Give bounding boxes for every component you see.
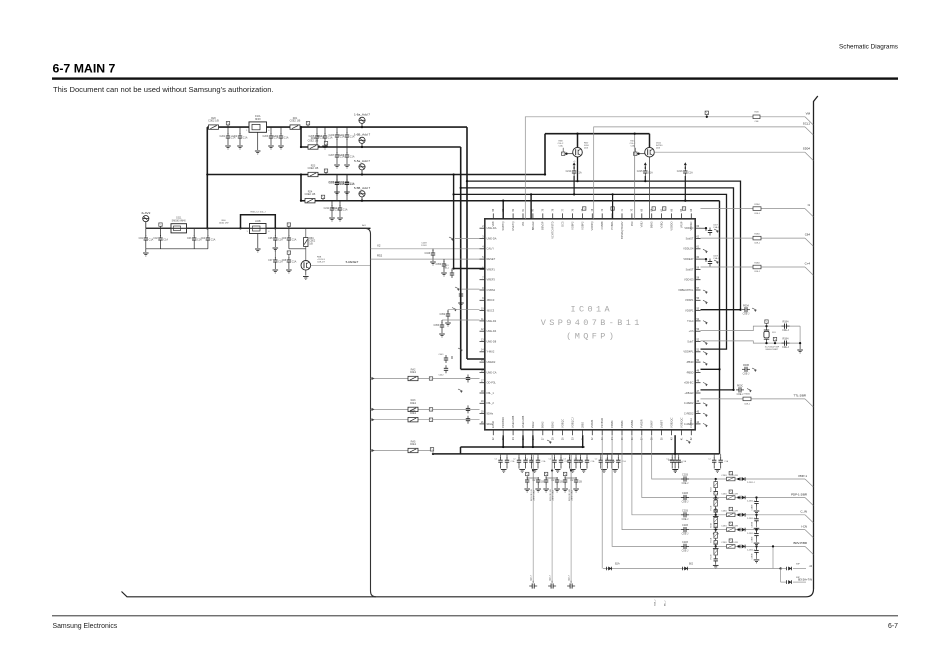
wire SCL: [594, 127, 805, 219]
ground: [346, 160, 348, 164]
svg-text:C206: C206: [316, 135, 322, 138]
svg-text:UNED2: UNED2: [487, 360, 496, 364]
svg-text:VO8PQ: VO8PQ: [590, 222, 594, 231]
svg-text:C64: C64: [805, 233, 811, 237]
svg-text:This Document can not be used: This Document can not be used without Sa…: [53, 85, 274, 94]
svg-text:C0E2 1/B: C0E2 1/B: [208, 120, 219, 123]
svg-text:C221: C221: [338, 134, 344, 137]
svg-text:2V6BR: 2V6BR: [630, 420, 634, 428]
svg-text:C-RED3: C-RED3: [684, 422, 694, 426]
svg-text:OD-P3L: OD-P3L: [487, 381, 497, 385]
wire nested n1: [467, 181, 741, 310]
capacitor CX1: [784, 324, 786, 329]
svg-text:C03: C03: [187, 237, 192, 240]
wire RC row PDP-1: [652, 435, 805, 479]
junction dot: [779, 567, 781, 569]
wire down to transistor: [305, 228, 307, 260]
svg-text:(5V): (5V): [584, 148, 588, 150]
resistor R6C vertical: [304, 238, 308, 247]
svg-text:TTL-2/BR: TTL-2/BR: [793, 393, 806, 397]
svg-text:C0E-J: C0E-J: [737, 393, 744, 396]
svg-text:C0E2 1/B: C0E2 1/B: [305, 193, 316, 196]
svg-text:C0E2 C1A-J: C0E2 C1A-J: [571, 490, 574, 501]
svg-text:V01: V01: [521, 221, 525, 226]
wire IC bottom pin drop: [522, 435, 524, 447]
svg-text:C203: C203: [262, 135, 268, 138]
resistor on exit C64: [753, 236, 761, 240]
svg-text:C0E-J: C0E-J: [682, 518, 689, 521]
svg-text:I-CN: I-CN: [801, 524, 807, 528]
svg-text:BBAAR: BBAAR: [531, 221, 535, 230]
capacitor C210: [346, 175, 348, 181]
svg-text:IC01A: IC01A: [570, 305, 613, 315]
capacitor C051 left pin y287: [461, 288, 480, 290]
resistor on SDA wire: [753, 115, 760, 119]
ground: [441, 330, 443, 333]
net flag 1-6B_Add 7: [361, 143, 363, 147]
svg-text:C21B: C21B: [682, 541, 688, 544]
capacitor C03: [193, 228, 195, 236]
ground: [324, 141, 326, 145]
svg-text:C0E2 1/B: C0E2 1/B: [308, 140, 319, 143]
svg-text:Schematic Diagrams: Schematic Diagrams: [839, 44, 898, 51]
capacitor C02: [160, 228, 162, 236]
svg-text:C049: C049: [424, 252, 430, 255]
diode D22: [682, 567, 684, 571]
svg-text:C1A: C1A: [350, 156, 355, 159]
ground: [336, 160, 338, 164]
svg-text:C2B0E: C2B0E: [752, 521, 754, 528]
capacitor CX2: [784, 341, 786, 346]
svg-text:B2H2: B2H2: [551, 421, 555, 428]
svg-text:2-2B1-J: 2-2B1-J: [747, 501, 755, 503]
svg-text:C0E2 C1A-J: C0E2 C1A-J: [533, 490, 536, 501]
capacitor C00A at pin 309: [744, 307, 746, 312]
cluster below row PDP-1: [715, 478, 717, 480]
capacitor C052 left pin y310: [448, 309, 480, 311]
capacitor C202: [239, 127, 241, 134]
svg-text:F8L_1: F8L_1: [487, 391, 495, 395]
capacitor C009 at right pins: [701, 258, 707, 260]
svg-text:PDP-1-2/BR: PDP-1-2/BR: [791, 492, 807, 496]
svg-text:9DHs: 9DHs: [487, 422, 494, 426]
wire exit I2: [781, 568, 786, 570]
wire long drop x533: [532, 500, 534, 583]
wire bus3 riser x545: [544, 134, 546, 175]
svg-text:C0E-J: C0E-J: [743, 372, 750, 375]
wire left entry A4: [371, 419, 480, 421]
cluster below row PDP-1-2/BR: [714, 492, 717, 495]
transistor Q03: [649, 134, 651, 148]
nc arrows right pins: [703, 290, 708, 292]
svg-text:VSP9407B-B11: VSP9407B-B11: [541, 318, 643, 328]
svg-text:C1A: C1A: [328, 137, 333, 140]
svg-text:UNE-D4: UNE-D4: [487, 329, 497, 333]
svg-text:VO8QCJ: VO8QCJ: [570, 417, 574, 428]
svg-text:C0E-J: C0E-J: [754, 213, 760, 215]
svg-text:SCL1: SCL1: [803, 121, 811, 125]
svg-text:C+4: C+4: [805, 262, 811, 266]
ground below C224: [337, 217, 343, 219]
svg-text:B6H3: B6H3: [650, 221, 654, 228]
svg-text:SD04: SD04: [803, 147, 811, 151]
svg-text:R21B: R21B: [710, 554, 712, 559]
cluster below row I-CN: [714, 524, 717, 527]
svg-text:C204: C204: [272, 135, 278, 138]
wire left entry A2: [371, 378, 480, 380]
wire TTL exit: [701, 398, 806, 400]
wire crystal upper: [701, 326, 801, 331]
ground: [443, 269, 445, 272]
svg-text:C0E-J: C0E-J: [754, 242, 760, 244]
capacitor C07 row2: [274, 249, 276, 258]
ground: [460, 299, 462, 302]
wire IC bottom pin drop x675: [674, 435, 676, 454]
svg-text:CL2R: CL2R: [732, 475, 738, 477]
svg-text:C2B0E: C2B0E: [752, 504, 754, 511]
svg-text:C05: C05: [268, 237, 273, 240]
svg-text:3+3V2: 3+3V2: [141, 211, 150, 215]
capacitor C06: [288, 228, 290, 236]
pad on SDA wire: [705, 111, 708, 114]
svg-text:CL2R: CL2R: [732, 525, 738, 527]
svg-text:P200B2R: P200B2R: [501, 417, 505, 428]
svg-text:VDDLO4: VDDLO4: [683, 247, 694, 251]
svg-text:C0E2 C1A-J: C0E2 C1A-J: [552, 490, 555, 501]
svg-text:2-2B1-J: 2-2B1-J: [747, 533, 755, 535]
sheet border right: [814, 96, 818, 589]
svg-text:C042: C042: [439, 375, 445, 377]
svg-text:C2B1: C2B1: [721, 475, 727, 477]
capacitor pair under bus: [500, 454, 502, 458]
svg-text:+DB-EC: +DB-EC: [684, 381, 694, 385]
wire bus link x301 upper: [300, 127, 302, 147]
svg-text:C1A: C1A: [577, 172, 582, 175]
capacitor pair under bus: [569, 454, 571, 458]
svg-text:R00A: R00A: [743, 304, 749, 307]
svg-text:UNECAB8: UNECAB8: [521, 415, 525, 428]
svg-text:VO82QC: VO82QC: [679, 417, 683, 428]
capacitor pair under bus: [580, 454, 582, 458]
svg-text:1-6B_Add 7: 1-6B_Add 7: [354, 133, 371, 137]
svg-text:VDSP1: VDSP1: [685, 309, 694, 313]
wire RC row BRV-P/BR: [612, 435, 805, 546]
svg-text:2-2B1-J: 2-2B1-J: [747, 518, 755, 520]
svg-text:B3-2A+7/N: B3-2A+7/N: [798, 578, 812, 582]
svg-text:9DHs: 9DHs: [487, 412, 494, 416]
svg-text:BBV3P: BBV3P: [541, 221, 545, 230]
svg-text:C1A: C1A: [163, 239, 168, 242]
svg-text:R1B4: R1B4: [783, 338, 790, 341]
ground: [227, 141, 229, 145]
svg-text:VO82QC: VO82QC: [669, 417, 673, 428]
svg-text:(MQFP): (MQFP): [566, 332, 617, 342]
svg-text:NF08: NF08: [255, 119, 261, 121]
capacitor: [466, 377, 470, 379]
svg-text:B0H2: B0H2: [541, 421, 545, 428]
capacitor series on row PDP-1: [683, 476, 685, 481]
svg-text:VREF3: VREF3: [487, 278, 496, 282]
wire to reset circle: [288, 243, 290, 249]
svg-text:1-6a_Add 7: 1-6a_Add 7: [354, 113, 370, 117]
wire IC top pin riser x612: [612, 194, 614, 218]
svg-text:B2/h: B2/h: [615, 564, 620, 566]
svg-text:C06: C06: [282, 237, 287, 240]
capacitor C04: [207, 228, 209, 236]
resistor R23 on bus3: [308, 172, 318, 176]
svg-text:VDD-E3: VDD-E3: [684, 278, 694, 282]
capacitor C205: [316, 127, 318, 134]
diode on row PDP-1: [739, 477, 741, 481]
wire v3 from bus3: [453, 175, 455, 269]
capacitor C00C at pin 389: [738, 387, 740, 392]
svg-text:UNE-D2: UNE-D2: [487, 319, 497, 323]
svg-text:2-2B1-J: 2-2B1-J: [747, 482, 755, 484]
wire RC row C_IN: [632, 435, 805, 515]
svg-text:1/16V: 1/16V: [421, 245, 427, 247]
svg-text:PV6DR: PV6DR: [640, 419, 644, 428]
diode on row BRV-P/BR: [739, 545, 741, 549]
svg-text:C08: C08: [282, 259, 287, 262]
extra nc arrows right pins: [703, 249, 708, 251]
capacitor C214 with flag: [573, 164, 575, 167]
svg-text:UNEYQ: UNEYQ: [511, 222, 515, 231]
capacitor C223 between bus3 bus4: [346, 175, 348, 181]
pad on bus1: [226, 122, 229, 125]
svg-text:VP2P: VP2P: [679, 221, 683, 228]
wire thick top pin riser x503: [502, 201, 504, 219]
ground: [274, 243, 276, 247]
svg-text:CL2R: CL2R: [732, 511, 738, 513]
svg-text:P4684: P4684: [620, 420, 624, 428]
svg-text:UNECAB8: UNECAB8: [511, 415, 515, 428]
ground: [239, 141, 241, 145]
svg-text:C214: C214: [566, 170, 572, 173]
capacitor pair under bus: [531, 454, 533, 458]
svg-text:C0E2 1/B: C0E2 1/B: [290, 120, 301, 123]
svg-text:R2B4: R2B4: [754, 263, 760, 265]
svg-text:1/B: 1/B: [309, 242, 313, 245]
wire power rail y228: [146, 227, 371, 229]
extra nc arrows bottom pins: [686, 440, 691, 442]
footer rule: [52, 615, 898, 616]
junction dots nested corners: [544, 173, 546, 175]
svg-text:C0E1: C0E1: [410, 371, 417, 374]
svg-text:100Ω 1/W: 100Ω 1/W: [219, 222, 230, 224]
capacitor series on row C_IN: [683, 512, 685, 517]
wire bus below link: [460, 447, 462, 454]
svg-text:M0/467GBRT: M0/467GBRT: [766, 349, 779, 351]
resistor series on row PDP-1-2/BR: [727, 496, 736, 500]
pad: [429, 377, 432, 380]
svg-text:X2: X2: [377, 243, 381, 247]
wire nested n4 long drop: [719, 201, 721, 454]
capacitor C041: [451, 356, 453, 359]
wire IC bottom pin drop: [502, 435, 504, 447]
capacitor C05: [274, 228, 276, 236]
svg-text:PV88A: PV88A: [610, 221, 614, 229]
svg-text:C220: C220: [328, 134, 334, 137]
svg-text:(5V): (5V): [656, 148, 660, 150]
net flag 1-6a_Add 7: [361, 123, 363, 127]
svg-text:C1A: C1A: [343, 209, 348, 212]
svg-text:UNE-DA: UNE-DA: [487, 236, 497, 240]
capacitor C224 below bus4: [339, 201, 341, 206]
capacitor pair under bus: [611, 454, 613, 458]
svg-text:C1A: C1A: [292, 261, 297, 264]
svg-text:C-RED2: C-RED2: [684, 412, 694, 416]
capacitor C204: [280, 127, 282, 134]
ground under FB01: [257, 132, 259, 150]
svg-text:V08J: V08J: [640, 221, 644, 228]
IC01A bottom pin row: [491, 415, 693, 440]
svg-text:C_IN: C_IN: [800, 510, 807, 514]
svg-text:+Ch: +Ch: [689, 329, 694, 333]
svg-text:1B: 1B: [579, 481, 582, 484]
svg-text:VCHTCAP3TD: VCHTCAP3TD: [551, 221, 555, 238]
capacitor series on row BRV-P/BR: [683, 544, 685, 549]
ground under Q01: [305, 270, 307, 275]
wire RC row I-CN: [622, 435, 805, 529]
svg-text:UNE-CA: UNE-CA: [487, 370, 497, 374]
svg-text:C0E1: C0E1: [410, 443, 417, 446]
wire left entry A5: [371, 450, 434, 452]
resistor series on row I-CN: [727, 528, 736, 532]
svg-text:C1A: C1A: [678, 461, 683, 464]
capacitor: [466, 418, 470, 420]
svg-text:C0E: C0E: [754, 121, 759, 123]
ferrite loop above L02B: [241, 215, 276, 229]
svg-text:F8L_2: F8L_2: [487, 401, 495, 405]
wire bus3 top y133.7: [545, 133, 650, 135]
diode on row C_IN: [739, 513, 741, 517]
wire Q03 drop to IC: [649, 157, 651, 219]
svg-text:C1A: C1A: [682, 460, 687, 463]
svg-text:BC_J: BC_J: [665, 601, 667, 606]
svg-text:C2B1: C2B1: [721, 525, 727, 527]
svg-text:C222: C222: [328, 181, 334, 184]
resistor on entry A3: [408, 407, 418, 411]
capacitor C220 between bus1 bus2: [336, 127, 338, 133]
svg-text:CL2R: CL2R: [732, 542, 738, 544]
svg-text:SubT: SubT: [687, 339, 694, 343]
svg-text:VDSP1: VDSP1: [685, 298, 694, 302]
capacitor pair under bus: [713, 454, 715, 458]
capacitor C050: [443, 259, 445, 262]
capacitor C01: [145, 228, 147, 236]
svg-text:C06: C06: [668, 459, 673, 462]
wire bus below IC upper: [461, 446, 585, 448]
svg-text:R2B4: R2B4: [754, 204, 760, 206]
wire bus4 y200.7: [301, 200, 720, 202]
wire nested n2: [461, 188, 734, 390]
svg-text:PDP-1: PDP-1: [798, 474, 807, 478]
capacitor C216 with flag: [684, 164, 686, 167]
svg-text:P2V8M4: P2V8M4: [600, 417, 604, 428]
resistor series on row C_IN: [727, 513, 736, 517]
capacitor C215 with flag: [644, 164, 646, 167]
svg-text:C1A: C1A: [243, 137, 248, 140]
resistor R24 on bus4: [305, 199, 315, 203]
sheet border bottom: [122, 589, 814, 597]
wire bus1 feed to IC pin: [467, 358, 485, 360]
net flag 3+3V2: [145, 222, 147, 229]
svg-text:C201: C201: [219, 135, 225, 138]
svg-text:VDDEC: VDDEC: [684, 226, 693, 230]
capacitor C208: [346, 147, 348, 153]
wire bottom B2: [603, 568, 781, 570]
ground: [316, 141, 318, 145]
capacitor C211: [331, 201, 333, 206]
svg-text:C211: C211: [324, 207, 330, 210]
wire bus2 y147: [301, 146, 461, 148]
capacitor series on row PDP-1-2/BR: [683, 495, 685, 500]
resistor on entry A2: [408, 376, 418, 380]
svg-text:C1A: C1A: [542, 460, 547, 463]
svg-text:C02: C02: [153, 237, 158, 240]
op-amp main IC01A VSP9407B-B11 body: [485, 219, 695, 430]
svg-text:C0E1: C0E1: [410, 402, 417, 405]
capacitor: [466, 407, 470, 409]
capacitor C207: [336, 147, 338, 153]
resistor on exit I1: [753, 207, 761, 211]
wire bus link x301 lower: [300, 175, 302, 201]
svg-text:VO8P2: VO8P2: [570, 221, 574, 230]
transistor Q02: [577, 134, 579, 148]
wire long drop x552: [551, 500, 553, 583]
svg-text:B2H2: B2H2: [531, 421, 535, 428]
ground: [145, 249, 147, 252]
pad: [429, 408, 432, 411]
capacitor pair under bus: [554, 454, 556, 458]
svg-text:R00B: R00B: [743, 364, 749, 367]
svg-text:P4684: P4684: [610, 420, 614, 428]
svg-text:VDDE47: VDDE47: [683, 257, 694, 261]
ground: [288, 265, 290, 269]
svg-text:C2B1: C2B1: [721, 542, 727, 544]
wire crystal lower: [701, 341, 801, 343]
wire thick feed IC left y268.5: [454, 268, 485, 270]
resistor R21 on bus1: [290, 125, 300, 129]
svg-text:-BSC3: -BSC3: [487, 309, 495, 313]
svg-text:C216: C216: [677, 170, 683, 173]
svg-text:BRV-P/BR: BRV-P/BR: [794, 541, 807, 545]
capacitor C007 at right pins: [701, 227, 707, 229]
svg-text:C1A: C1A: [622, 460, 627, 463]
svg-text:VREF1: VREF1: [487, 267, 496, 271]
wire bus1 drop x466: [466, 127, 468, 359]
svg-text:R52: R52: [377, 254, 383, 258]
wire row5 drop to bottom wire: [772, 546, 774, 568]
IC01A left pin column: [480, 226, 497, 426]
svg-text:C21B: C21B: [682, 492, 688, 495]
svg-text:C052: C052: [439, 313, 445, 316]
svg-text:C207: C207: [328, 154, 334, 157]
svg-text:VDBHC8TCL: VDBHC8TCL: [678, 288, 694, 292]
wire IC bottom pin drop: [532, 435, 534, 447]
svg-text:C0E2 1/B: C0E2 1/B: [308, 167, 319, 170]
capacitor hang right of diode: [755, 528, 757, 530]
wire thin drop x634 to IC top: [634, 134, 636, 219]
ground: [331, 213, 333, 217]
pad Q03 gate: [634, 152, 637, 155]
rc cluster x571: [570, 469, 572, 471]
capacitor C08 row2: [288, 254, 290, 258]
svg-text:VD8: VD8: [491, 221, 495, 227]
svg-text:C1A-J: C1A-J: [713, 257, 719, 260]
cluster below row C_IN: [714, 509, 718, 513]
svg-text:C0E-J: C0E-J: [782, 329, 789, 332]
